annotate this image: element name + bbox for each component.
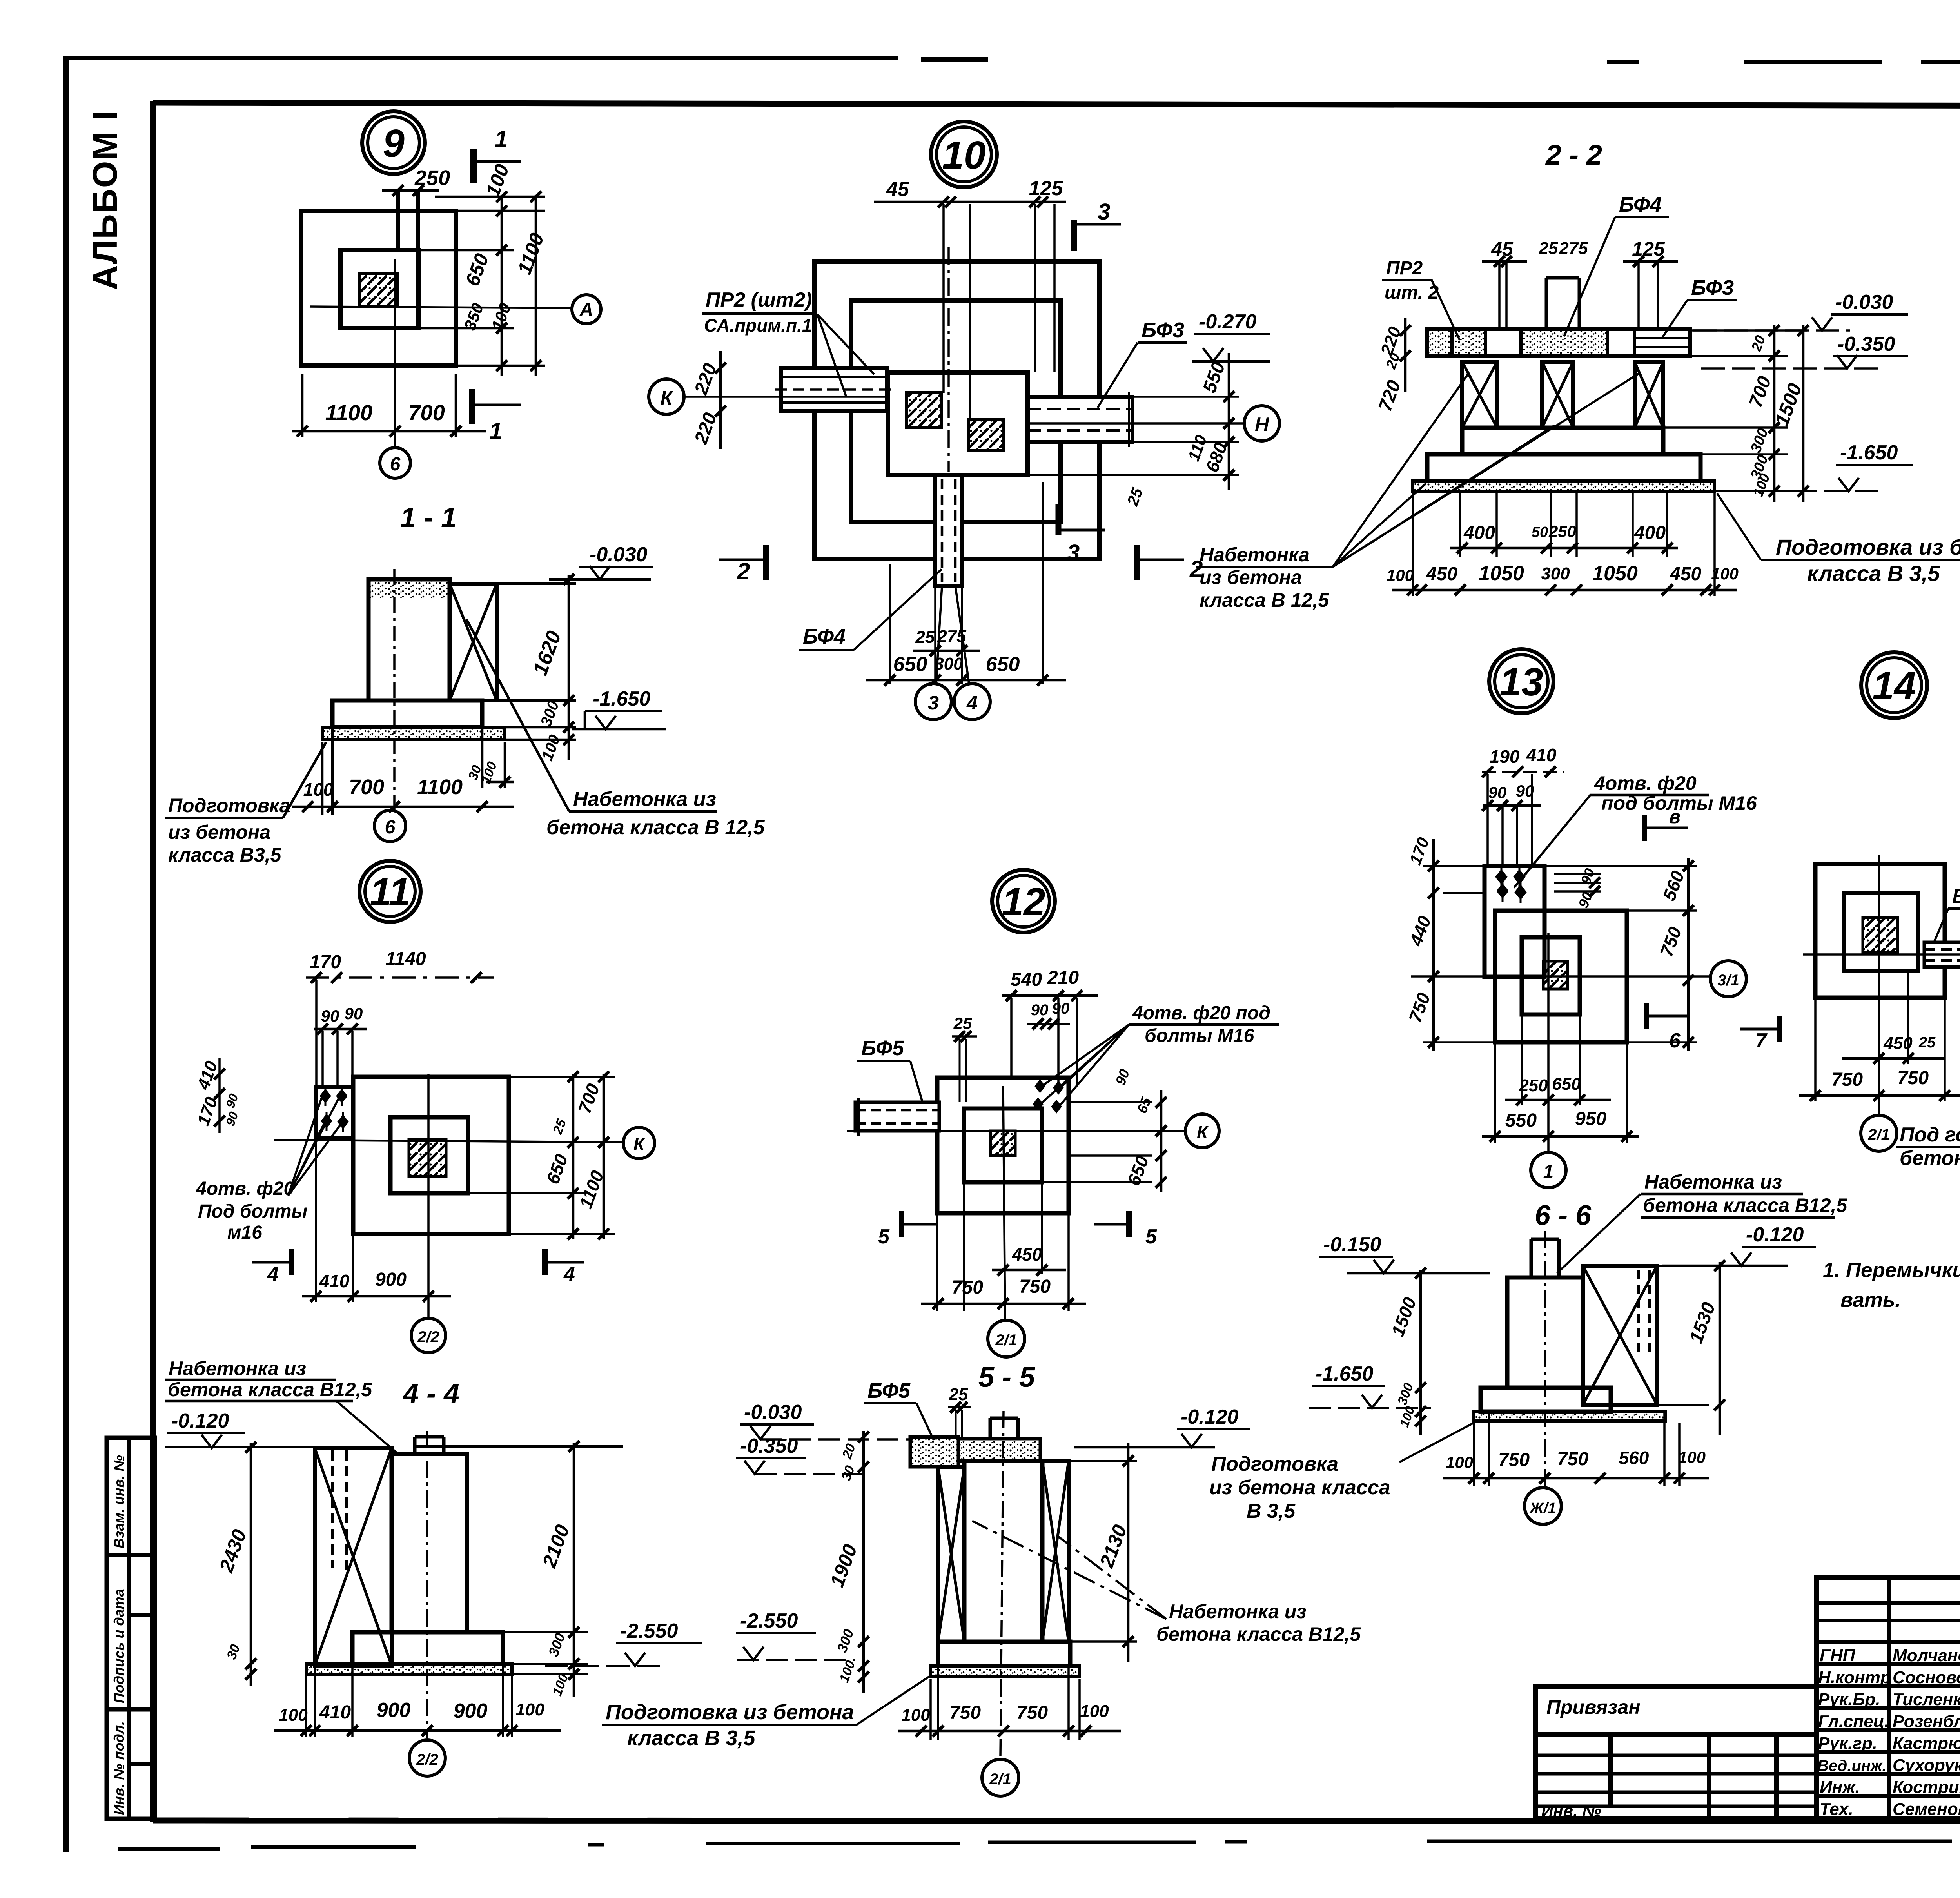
detail 10 right dims: [1028, 397, 1239, 475]
svg-text:ГНП: ГНП: [1820, 1646, 1856, 1665]
section 4-4 bubble 2/2: [409, 1740, 445, 1776]
section 1-1 column centerline: [393, 569, 396, 809]
svg-text:650: 650: [893, 653, 927, 676]
detail 13 left dim chain: [1423, 866, 1495, 1042]
signature table: [1817, 1577, 1960, 1819]
section 4-4 column: [392, 1454, 467, 1632]
svg-text:750: 750: [1897, 1068, 1929, 1089]
svg-text:100: 100: [1387, 566, 1414, 584]
svg-text:-1.650: -1.650: [1316, 1363, 1374, 1385]
svg-text:-2.550: -2.550: [740, 1609, 798, 1632]
section 6-6 X block: [1583, 1266, 1657, 1405]
svg-text:13: 13: [1499, 660, 1543, 704]
svg-text:БФ5: БФ5: [867, 1379, 911, 1403]
svg-text:бетона класса В12,5: бетона класса В12,5: [168, 1379, 372, 1401]
svg-text:класса В3,5: класса В3,5: [168, 844, 282, 866]
svg-text:700: 700: [408, 400, 445, 425]
svg-text:вать.: вать.: [1840, 1288, 1901, 1312]
svg-text:Гл.спец.: Гл.спец.: [1818, 1712, 1889, 1731]
detail 11 section marks 4: [289, 1249, 294, 1275]
svg-text:ПР2: ПР2: [1386, 258, 1423, 279]
svg-text:1140: 1140: [385, 949, 426, 969]
svg-text:3: 3: [1098, 199, 1110, 225]
svg-text:410: 410: [319, 1702, 351, 1723]
detail 13 big square: [1495, 911, 1627, 1042]
detail 9 bottom dim 1100 700: [292, 374, 486, 437]
svg-text:ПР2 (шт2): ПР2 (шт2): [706, 289, 812, 311]
svg-text:100: 100: [1711, 564, 1739, 583]
svg-text:6: 6: [385, 817, 396, 838]
detail 11 label 4отв ф20: [196, 1178, 307, 1243]
svg-text:-1.650: -1.650: [593, 688, 651, 710]
svg-text:1100: 1100: [417, 775, 463, 799]
section 1-1 bottom dims: [292, 729, 514, 815]
detail 12 anchor bolts: [1034, 1081, 1062, 1112]
detail 12 top dims 540 210: [1002, 994, 1098, 997]
section 5-5 beam БФ5 and band: [910, 1437, 958, 1467]
svg-text:90: 90: [1052, 1000, 1070, 1017]
section 5-5 bubble 2/1: [982, 1759, 1019, 1796]
svg-text:Взам. инв. №: Взам. инв. №: [111, 1455, 127, 1548]
detail 13 tall rect: [1485, 866, 1544, 977]
svg-text:400: 400: [1463, 523, 1495, 543]
svg-text:Подготовка: Подготовка: [1211, 1453, 1338, 1475]
section 2-2 label ПР2 шт.2: [1385, 258, 1439, 303]
detail 12 bottom dims: [937, 1184, 1069, 1311]
section 2-2 top dims: [1499, 261, 1658, 329]
svg-text:бетона класса В 3,5: бетона класса В 3,5: [1900, 1147, 1960, 1170]
svg-text:125: 125: [1029, 177, 1063, 200]
svg-text:БФ4: БФ4: [1619, 193, 1662, 216]
svg-text:250: 250: [414, 166, 450, 190]
svg-text:900: 900: [375, 1269, 407, 1290]
detail 13 bottom dims: [1495, 1016, 1627, 1143]
section 2-2 top band: [1427, 329, 1690, 356]
svg-text:4отв. ф20: 4отв. ф20: [196, 1178, 294, 1199]
detail 14 beam БФ6: [1924, 942, 1960, 967]
detail 9 axis A line and bubble: [310, 307, 572, 308]
svg-text:бетона класса В 12,5: бетона класса В 12,5: [546, 816, 765, 839]
detail 11 hatched column: [409, 1139, 446, 1176]
svg-text:из бетона класса: из бетона класса: [1209, 1476, 1390, 1499]
svg-text:БФ5: БФ5: [861, 1036, 904, 1060]
svg-text:100: 100: [515, 1700, 544, 1719]
detail 10 lintel ПР2 left: [781, 368, 887, 411]
detail 12 beam БФ5: [855, 1102, 939, 1131]
svg-text:650: 650: [1552, 1074, 1581, 1094]
svg-text:7: 7: [1755, 1029, 1768, 1052]
svg-text:-0.120: -0.120: [1181, 1406, 1239, 1428]
svg-text:100: 100: [1446, 1453, 1473, 1472]
detail 12 axis to К: [847, 1130, 1184, 1132]
svg-text:750: 750: [1498, 1450, 1530, 1470]
svg-text:Тисленко: Тисленко: [1893, 1690, 1960, 1709]
svg-text:250: 250: [1519, 1076, 1548, 1095]
detail 13 section mark в top: [1642, 815, 1647, 841]
svg-text:2 - 2: 2 - 2: [1545, 140, 1602, 171]
svg-text:100: 100: [1080, 1702, 1109, 1721]
svg-text:Набетонка: Набетонка: [1200, 544, 1310, 566]
svg-text:750: 750: [1557, 1449, 1588, 1470]
detail 14 outer square: [1815, 864, 1945, 998]
svg-text:класса В 3,5: класса В 3,5: [1807, 561, 1940, 586]
detail 11 bottom dims: [316, 1141, 353, 1302]
section 1-1 label подготовка: [168, 795, 290, 866]
detail 10 stub БФ4 bottom: [935, 475, 962, 586]
detail 10 section marks 2: [763, 545, 769, 580]
detail 10 outer square: [814, 261, 1100, 559]
svg-text:1: 1: [489, 418, 502, 444]
svg-text:2: 2: [737, 558, 750, 584]
svg-text:-0.350: -0.350: [1837, 333, 1895, 356]
svg-text:Молчанов: Молчанов: [1893, 1646, 1960, 1665]
svg-text:Инж.: Инж.: [1820, 1778, 1860, 1797]
inner frame left vertical: [150, 101, 156, 1822]
svg-text:Сухорукова: Сухорукова: [1893, 1756, 1960, 1775]
svg-text:класса В 12,5: класса В 12,5: [1200, 589, 1329, 611]
svg-text:4отв. ф20: 4отв. ф20: [1594, 772, 1697, 794]
section 6-6 bottom dims: [1474, 1413, 1679, 1486]
detail 13 inner square: [1522, 937, 1580, 1014]
svg-text:450: 450: [1670, 564, 1701, 584]
detail 13 label 4отв ф20: [1594, 772, 1757, 814]
svg-text:-0.120: -0.120: [1746, 1223, 1804, 1246]
section 5-5 right dims: [1069, 1461, 1137, 1642]
svg-text:Кастрюкин: Кастрюкин: [1893, 1734, 1960, 1753]
detail 14 axes: [1803, 953, 1960, 956]
section 4-4 bottom dims: [306, 1666, 512, 1737]
detail 13 top dims 190 410: [1482, 771, 1564, 773]
svg-text:5: 5: [1145, 1225, 1157, 1248]
section 2-2 column stub above: [1546, 278, 1579, 329]
section 1-1 column with concrete cap: [368, 579, 450, 700]
section 1-1 набетонка X block: [450, 584, 497, 700]
svg-text:12: 12: [1002, 880, 1045, 924]
svg-text:5: 5: [878, 1225, 890, 1248]
svg-text:900: 900: [454, 1700, 488, 1722]
svg-text:410: 410: [1526, 745, 1557, 765]
svg-text:450: 450: [1883, 1034, 1913, 1053]
inner frame top: [153, 103, 1960, 107]
detail 13 section mark 6 bottom: [1644, 1003, 1649, 1029]
svg-text:4: 4: [563, 1263, 575, 1286]
svg-text:-1.650: -1.650: [1840, 441, 1898, 464]
label подготовка под 14/7-7: [1900, 1123, 1960, 1170]
svg-text:11: 11: [370, 870, 410, 914]
section 2-2 left dims: [1404, 318, 1407, 392]
detail 11 bolt plate: [316, 1087, 353, 1138]
detail 11 right dim chains: [468, 1077, 615, 1234]
svg-text:Под готовка из: Под готовка из: [1900, 1123, 1960, 1146]
section 4-4 X block left: [315, 1448, 392, 1666]
svg-text:из бетона: из бетона: [168, 821, 270, 843]
svg-text:6: 6: [1669, 1029, 1681, 1052]
svg-text:560: 560: [1619, 1448, 1649, 1468]
fan leaders to 2-2 columns: [1333, 372, 1641, 567]
svg-text:Привязан: Привязан: [1546, 1696, 1641, 1718]
svg-text:100: 100: [1678, 1448, 1706, 1466]
detail 14 axis bubble 2/1: [1861, 1115, 1897, 1151]
svg-text:700: 700: [349, 775, 384, 799]
section 6-6 left dims: [1419, 1270, 1422, 1435]
detail 13 axis line and bubble 3/1: [1411, 975, 1709, 978]
svg-text:750: 750: [1019, 1276, 1051, 1297]
svg-text:3: 3: [1067, 540, 1080, 566]
svg-text:-0.030: -0.030: [1835, 291, 1893, 314]
page outer border left: [63, 56, 69, 1852]
svg-text:Под болты: Под болты: [198, 1201, 307, 1222]
detail 10 axis Н bubble: [1244, 406, 1279, 441]
svg-text:25: 25: [915, 628, 935, 647]
svg-text:45: 45: [886, 178, 909, 201]
svg-text:Кострина: Кострина: [1893, 1778, 1960, 1797]
section 5-5 column stub: [990, 1418, 1018, 1439]
svg-text:210: 210: [1047, 967, 1079, 988]
svg-text:1: 1: [495, 126, 508, 152]
detail 9 vertical centerline to axis 6: [394, 259, 396, 447]
svg-text:Инв. №: Инв. №: [1541, 1802, 1601, 1820]
svg-text:болты М16: болты М16: [1145, 1025, 1254, 1046]
svg-text:Подготовка из бетона: Подготовка из бетона: [606, 1700, 854, 1724]
svg-text:45: 45: [1491, 238, 1514, 260]
svg-text:К: К: [633, 1134, 646, 1154]
svg-text:Подготовка из бетона: Подготовка из бетона: [1776, 535, 1960, 559]
svg-text:450: 450: [1012, 1244, 1042, 1265]
detail 10 middle square: [851, 300, 1060, 522]
page outer border top: [66, 58, 1960, 63]
svg-text:1050: 1050: [1479, 562, 1524, 585]
detail 11 dims 90 90: [314, 1028, 367, 1031]
detail 13 hatched column: [1543, 961, 1568, 989]
svg-text:750: 750: [952, 1277, 983, 1298]
detail 13 witness lines: [1488, 774, 1532, 866]
svg-text:Розенблат: Розенблат: [1893, 1712, 1960, 1731]
svg-text:2/1: 2/1: [1867, 1126, 1890, 1143]
svg-text:Тех.: Тех.: [1820, 1800, 1853, 1819]
svg-text:бетона класса В12,5: бетона класса В12,5: [1643, 1194, 1847, 1216]
svg-text:СА.прим.п.1: СА.прим.п.1: [704, 315, 812, 336]
section 4-4 centerline: [426, 1431, 428, 1738]
svg-text:-0.030: -0.030: [590, 543, 648, 566]
page outer border bottom (broken): [118, 1839, 1960, 1849]
svg-text:300: 300: [1541, 564, 1570, 583]
section 6-6 right dims: [1657, 1266, 1709, 1405]
svg-text:-0.150: -0.150: [1323, 1233, 1381, 1256]
svg-text:25: 25: [953, 1014, 972, 1032]
svg-text:Подготовка: Подготовка: [168, 795, 290, 817]
detail 11 bubble: [359, 861, 421, 922]
svg-text:6 - 6: 6 - 6: [1535, 1200, 1592, 1231]
svg-text:класса В 3,5: класса В 3,5: [627, 1726, 755, 1750]
svg-text:90: 90: [1488, 783, 1507, 802]
svg-text:Рук.Бр.: Рук.Бр.: [1818, 1690, 1880, 1709]
svg-text:170: 170: [310, 952, 341, 973]
detail 9 section mark 1 bottom: [469, 389, 475, 424]
section 6-6 bubble Ж/1: [1524, 1488, 1561, 1524]
detail 10 label ПР2: [704, 289, 812, 336]
detail 9 hatched column: [359, 273, 398, 307]
detail 9 outer square: [301, 211, 456, 366]
section 4-4 footing: [352, 1632, 503, 1664]
svg-text:БФ4: БФ4: [803, 625, 846, 648]
svg-text:-0.120: -0.120: [171, 1410, 229, 1432]
svg-text:750: 750: [1831, 1069, 1863, 1090]
section 4-4 label набетонка: [168, 1357, 372, 1401]
svg-text:750: 750: [1016, 1702, 1048, 1723]
section 5-5 centerline: [1000, 1411, 1004, 1756]
detail 13 right dim chain: [1544, 866, 1697, 1042]
svg-text:-0.030: -0.030: [744, 1401, 802, 1424]
svg-text:4 - 4: 4 - 4: [402, 1378, 459, 1410]
detail 10 hatched column 1: [906, 393, 942, 428]
svg-text:650: 650: [986, 653, 1020, 676]
detail 14 hatched column: [1863, 918, 1898, 953]
svg-text:6: 6: [390, 454, 401, 475]
Привязан box: [1535, 1687, 1817, 1819]
svg-text:900: 900: [377, 1699, 411, 1722]
general note: [1823, 1259, 1960, 1312]
svg-text:2/2: 2/2: [416, 1751, 438, 1768]
inner frame bottom: [153, 1820, 1960, 1821]
svg-text:9: 9: [383, 122, 405, 165]
section 5-5 left dims: [862, 1431, 865, 1693]
detail 14 inner square: [1844, 893, 1918, 971]
label набетонка под 10/2-2: [1200, 544, 1329, 611]
svg-text:БФ3: БФ3: [1142, 318, 1184, 342]
section 5-5 footing: [938, 1642, 1070, 1666]
svg-text:1050: 1050: [1592, 562, 1638, 585]
detail 12 right dims: [1042, 1102, 1152, 1182]
svg-text:4: 4: [966, 692, 978, 714]
svg-text:1. Перемычки марки ПР1;ПР2 обе: 1. Перемычки марки ПР1;ПР2 обернуть сетк…: [1823, 1259, 1960, 1282]
section 6-6 label набетонка: [1643, 1171, 1847, 1216]
section 6-6 footing: [1481, 1388, 1611, 1412]
svg-text:540: 540: [1011, 969, 1042, 990]
svg-text:100: 100: [901, 1706, 930, 1725]
detail 13 axis bubble 1: [1531, 1152, 1566, 1188]
section 6-6 centerline: [1544, 1231, 1546, 1486]
svg-text:Рук.гр.: Рук.гр.: [1818, 1734, 1877, 1753]
detail 14 bubble: [1861, 652, 1927, 718]
detail 13 right small dims 90 90: [1554, 874, 1601, 891]
section 2-2 right dims: [1663, 330, 1807, 491]
detail 11 axis line to К: [274, 1140, 622, 1142]
svg-text:4отв. ф20 под: 4отв. ф20 под: [1132, 1003, 1270, 1023]
svg-text:К: К: [661, 387, 674, 409]
svg-text:-0.350: -0.350: [740, 1435, 798, 1457]
detail 13 anchor bolts: [1497, 866, 1525, 903]
svg-text:3/1: 3/1: [1717, 972, 1739, 989]
svg-text:К: К: [1197, 1122, 1209, 1142]
section 2-2 X columns: [1462, 362, 1663, 428]
detail 11 inner square: [390, 1117, 468, 1193]
signature table texts: [1817, 1646, 1960, 1819]
svg-text:125: 125: [1632, 238, 1665, 260]
section 4-4 left dims: [250, 1443, 252, 1686]
svg-text:бетона класса В12,5: бетона класса В12,5: [1156, 1623, 1361, 1645]
section 2-2 label подготовка: [1776, 535, 1960, 586]
svg-text:4: 4: [267, 1263, 279, 1286]
section 5-5 main column: [964, 1461, 1042, 1642]
detail 12 bubble: [992, 870, 1055, 933]
section 4-4 ground line: [165, 1446, 623, 1447]
detail 11 top dims 170 1140: [306, 976, 494, 979]
svg-text:Сосновская: Сосновская: [1893, 1668, 1960, 1687]
section 1-1 axis 6 bubble below: [374, 810, 406, 842]
svg-text:950: 950: [1575, 1109, 1606, 1129]
section 6-6 column: [1507, 1277, 1583, 1388]
svg-text:Н.контр: Н.контр: [1818, 1668, 1891, 1687]
section 2-2 slab: [1413, 481, 1715, 491]
svg-text:50: 50: [1532, 524, 1548, 541]
detail 12 section marks 5: [899, 1211, 904, 1237]
svg-text:1 - 1: 1 - 1: [400, 502, 457, 533]
detail 12 inner square: [964, 1109, 1042, 1182]
svg-text:Набетонка из: Набетонка из: [573, 788, 716, 811]
detail 10 beam БФ3 right: [1028, 397, 1132, 442]
detail 14 bottom dims: [1815, 971, 1945, 1101]
detail 9 right dim chains: [418, 195, 545, 376]
detail 9 section mark 1 top: [470, 149, 477, 183]
svg-text:БФ3: БФ3: [1691, 276, 1734, 299]
section 1-1 подготовка slab: [322, 727, 505, 740]
svg-text:Вед.инж.: Вед.инж.: [1817, 1757, 1887, 1775]
section 2-2 footing steps: [1462, 428, 1663, 454]
detail 11 outer square: [353, 1077, 509, 1234]
svg-text:Набетонка из: Набетонка из: [169, 1357, 306, 1379]
detail 11 centerline and bubble 2/2: [427, 1074, 430, 1317]
section 1-1 right dim chain: [482, 575, 576, 760]
detail 12 hatched column: [991, 1131, 1015, 1156]
detail 12 label 4отв ф20: [1132, 1003, 1270, 1046]
section 5-5 label набетонка right: [1156, 1600, 1361, 1645]
section 5-5 X blocks: [938, 1467, 964, 1642]
section 1-1 label набетонка: [546, 788, 765, 839]
svg-text:А: А: [579, 299, 593, 320]
detail 10 inner rect: [888, 372, 1028, 475]
svg-text:-0.270: -0.270: [1199, 310, 1257, 333]
svg-text:Н: Н: [1255, 414, 1269, 435]
detail 10 bottom dims: [890, 482, 1043, 684]
detail 9 dim 250: [382, 189, 439, 192]
detail 10 axis bubbles 3 4: [936, 586, 969, 684]
svg-text:750: 750: [949, 1702, 981, 1723]
svg-text:Набетонка из: Набетонка из: [1644, 1171, 1782, 1193]
detail 10 bubble: [931, 122, 997, 187]
detail 10 axis К bubble: [649, 379, 684, 414]
detail 12 centerline and bubble 2/1: [1003, 1086, 1005, 1320]
detail 13 bubble: [1489, 649, 1553, 713]
section 4-4 right dims: [467, 1446, 588, 1674]
svg-text:2/2: 2/2: [417, 1328, 439, 1346]
svg-text:В 3,5: В 3,5: [1247, 1500, 1296, 1522]
svg-text:100: 100: [303, 779, 334, 800]
section 6-6 label подготовка: [1209, 1453, 1390, 1522]
svg-text:Ж/1: Ж/1: [1529, 1500, 1556, 1517]
svg-text:БФ6: БФ6: [1952, 885, 1960, 908]
detail 10 hatched column 2: [968, 419, 1003, 450]
svg-text:АЛЬБОМ I: АЛЬБОМ I: [85, 110, 124, 290]
detail 11 left rotated dims: [193, 1058, 241, 1128]
detail 10 axis lines: [685, 396, 890, 398]
svg-text:Подпись и дата: Подпись и дата: [111, 1589, 127, 1703]
svg-text:-2.550: -2.550: [620, 1620, 678, 1642]
detail 9 column stub above: [398, 191, 418, 250]
svg-text:400: 400: [1634, 523, 1666, 543]
detail 9 inner square: [340, 250, 418, 328]
detail 14 section marks 7: [1777, 1016, 1782, 1042]
svg-text:90: 90: [345, 1004, 363, 1023]
